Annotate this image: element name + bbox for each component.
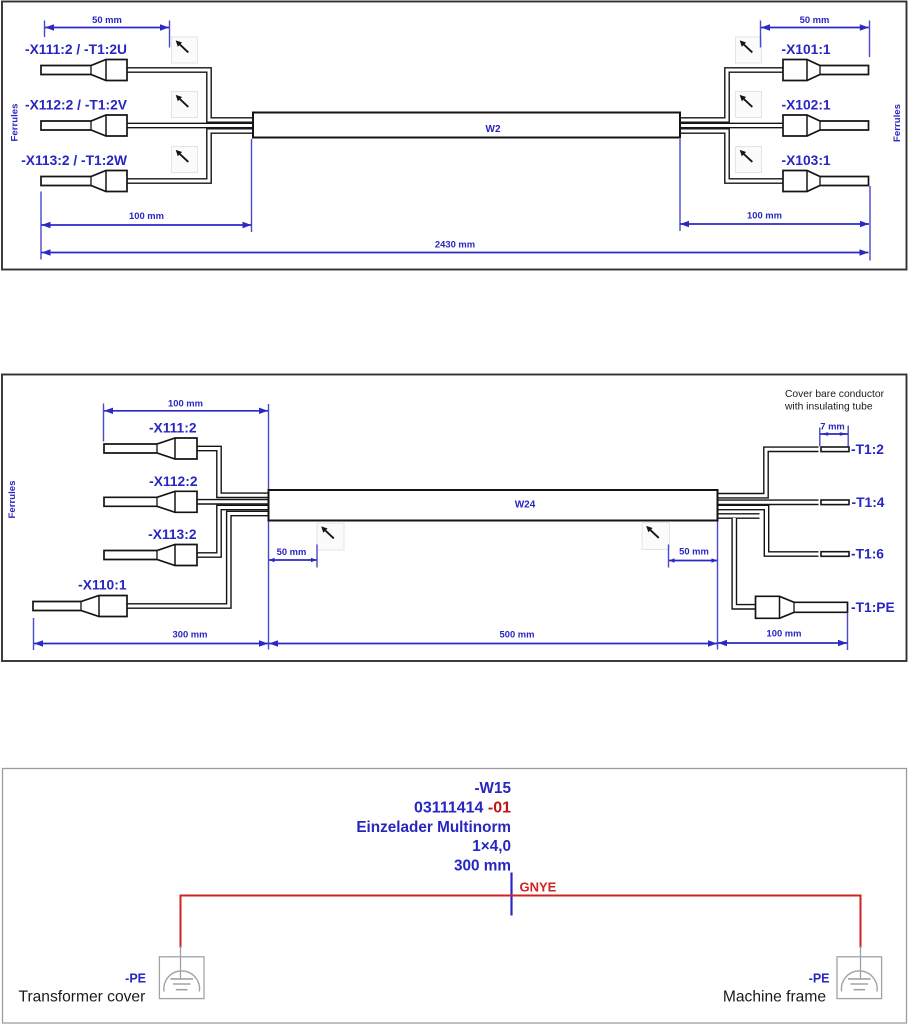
dimension 50 mm left panel2 xyxy=(268,522,270,650)
twist icon 2 right xyxy=(736,92,762,118)
insulating tube at -T1:4 xyxy=(821,500,849,505)
svg-text:100 mm: 100 mm xyxy=(747,210,782,221)
svg-text:100 mm: 100 mm xyxy=(767,628,802,639)
twist icon right panel2 xyxy=(642,523,670,550)
dimension 100 mm bottom-right panel2 xyxy=(847,613,849,651)
twist icon left panel2 xyxy=(317,523,344,550)
ferrule -X112:2/-T1:2V xyxy=(41,115,127,136)
svg-text:-X113:2: -X113:2 xyxy=(148,527,197,542)
svg-text:-X112:2 / -T1:2V: -X112:2 / -T1:2V xyxy=(25,98,128,113)
svg-text:-X113:2 / -T1:2W: -X113:2 / -T1:2W xyxy=(21,153,128,168)
insulating tube at -T1:6 xyxy=(821,552,849,557)
wire PE drop to -T1:PE ferrule xyxy=(734,518,757,607)
dimension 100 mm bottom-left xyxy=(40,192,42,260)
wire -X113:2 to cable W24 xyxy=(195,508,270,556)
svg-text:300 mm: 300 mm xyxy=(454,857,511,874)
svg-text:with insulating tube: with insulating tube xyxy=(784,402,873,413)
dimension 50 mm right panel2 xyxy=(668,545,670,568)
dimension 7 mm panel2 xyxy=(819,428,821,447)
twist icon 3 left xyxy=(172,147,198,173)
twist icon 3 right xyxy=(736,147,762,173)
svg-text:Cover bare conductor: Cover bare conductor xyxy=(785,389,885,400)
svg-text:Transformer cover: Transformer cover xyxy=(19,988,146,1005)
svg-text:GNYE: GNYE xyxy=(520,880,557,895)
blue tick on wire W15 xyxy=(510,873,512,916)
svg-text:Ferrules: Ferrules xyxy=(892,104,903,142)
ferrule -X112:2 xyxy=(104,491,197,512)
dimension 300 mm panel2 xyxy=(33,618,35,650)
svg-text:-T1:4: -T1:4 xyxy=(852,495,885,510)
ground symbol -PE right (machine frame) xyxy=(837,957,882,999)
wire from -X113:2 ferrule to cable W2 xyxy=(125,131,255,181)
panel 2 frame (cable W24 drawing) xyxy=(2,375,907,662)
svg-text:Machine frame: Machine frame xyxy=(723,988,826,1005)
grey lead-in left xyxy=(180,947,182,979)
wire cable W24 to -T1:2 xyxy=(716,449,819,495)
svg-text:-X110:1: -X110:1 xyxy=(78,578,127,593)
svg-text:Einzelader Multinorm: Einzelader Multinorm xyxy=(356,819,511,836)
svg-text:Ferrules: Ferrules xyxy=(10,104,21,142)
wire W15 (GNYE) red run xyxy=(181,896,861,948)
svg-text:W2: W2 xyxy=(486,124,501,135)
ferrule -X111:2 xyxy=(104,438,197,459)
dimension 500 mm panel2 xyxy=(269,643,717,645)
svg-text:-X112:2: -X112:2 xyxy=(149,474,198,489)
ferrule -X113:2 xyxy=(104,545,197,566)
svg-text:-PE: -PE xyxy=(809,971,830,985)
svg-text:500 mm: 500 mm xyxy=(500,629,535,640)
svg-text:-T1:6: -T1:6 xyxy=(851,547,884,562)
svg-text:-X111:2: -X111:2 xyxy=(149,421,197,436)
ferrule -X110:1 xyxy=(33,596,127,617)
svg-text:-X102:1: -X102:1 xyxy=(782,98,831,113)
ground symbol -PE left (transformer cover) xyxy=(159,957,204,999)
dimension 100 mm bottom-right xyxy=(679,139,681,231)
svg-text:03111414 -01: 03111414 -01 xyxy=(414,800,511,817)
svg-text:-X103:1: -X103:1 xyxy=(782,153,831,168)
cable W24 body xyxy=(269,490,718,521)
wire stub below cable W24 (PE) xyxy=(716,513,760,519)
panel 3 frame (wire W15 drawing) xyxy=(3,769,907,1024)
twist icon 1 right xyxy=(736,37,762,63)
ferrule -X102:1 xyxy=(783,115,869,136)
twist icon 1 left xyxy=(172,37,198,63)
grey lead-in right xyxy=(860,947,862,979)
dimension 2430 mm overall xyxy=(42,252,869,254)
ferrule -T1:PE xyxy=(756,596,848,618)
svg-text:7 mm: 7 mm xyxy=(820,421,845,432)
svg-text:-W15: -W15 xyxy=(474,780,511,797)
svg-text:W24: W24 xyxy=(515,500,536,511)
dimension 50 mm top-left xyxy=(44,21,46,38)
wire from -X111:2 ferrule to cable W2 xyxy=(125,70,255,120)
twist icon 2 left xyxy=(172,92,198,118)
svg-text:50 mm: 50 mm xyxy=(92,14,122,25)
wire from -X112:2 ferrule to cable W2 xyxy=(125,123,255,129)
ferrule -X101:1 xyxy=(783,60,869,81)
svg-text:50 mm: 50 mm xyxy=(277,546,307,557)
dimension 50 mm top-right xyxy=(760,21,762,48)
svg-text:-T1:2: -T1:2 xyxy=(851,442,884,457)
insulating tube at -T1:2 xyxy=(821,447,849,452)
ferrule -X113:2/-T1:2W xyxy=(41,171,127,192)
ferrule -X111:2/-T1:2U xyxy=(41,60,127,81)
svg-text:1×4,0: 1×4,0 xyxy=(472,838,511,855)
wire cable W24 to -T1:6 xyxy=(716,508,819,555)
wire -X112:2 to cable W24 xyxy=(195,499,270,505)
wire cable W24 to -T1:4 xyxy=(716,499,819,505)
svg-text:300 mm: 300 mm xyxy=(173,629,208,640)
ferrule -X103:1 xyxy=(783,171,869,192)
svg-text:-PE: -PE xyxy=(125,971,146,985)
svg-text:-X111:2 / -T1:2U: -X111:2 / -T1:2U xyxy=(25,42,127,57)
svg-text:100 mm: 100 mm xyxy=(129,210,164,221)
svg-text:2430 mm: 2430 mm xyxy=(435,239,475,250)
svg-text:50 mm: 50 mm xyxy=(800,14,830,25)
wire -X111:2 to cable W24 xyxy=(195,449,270,496)
svg-text:50 mm: 50 mm xyxy=(679,546,709,557)
cable W2 body xyxy=(253,113,680,138)
svg-text:-T1:PE: -T1:PE xyxy=(851,600,895,615)
wire from cable W2 to -X103:1 ferrule xyxy=(678,131,785,181)
wire from cable W2 to -X101:1 ferrule xyxy=(678,70,785,120)
dimension 100 mm top-left panel2 xyxy=(103,404,105,442)
svg-text:Ferrules: Ferrules xyxy=(7,481,18,519)
svg-text:-X101:1: -X101:1 xyxy=(782,42,831,57)
wire -X110:1 to cable W24 xyxy=(125,514,270,607)
svg-text:100 mm: 100 mm xyxy=(168,397,203,408)
wire from cable W2 to -X102:1 ferrule xyxy=(678,123,785,129)
panel 1 frame (cable W2 drawing) xyxy=(2,2,907,270)
